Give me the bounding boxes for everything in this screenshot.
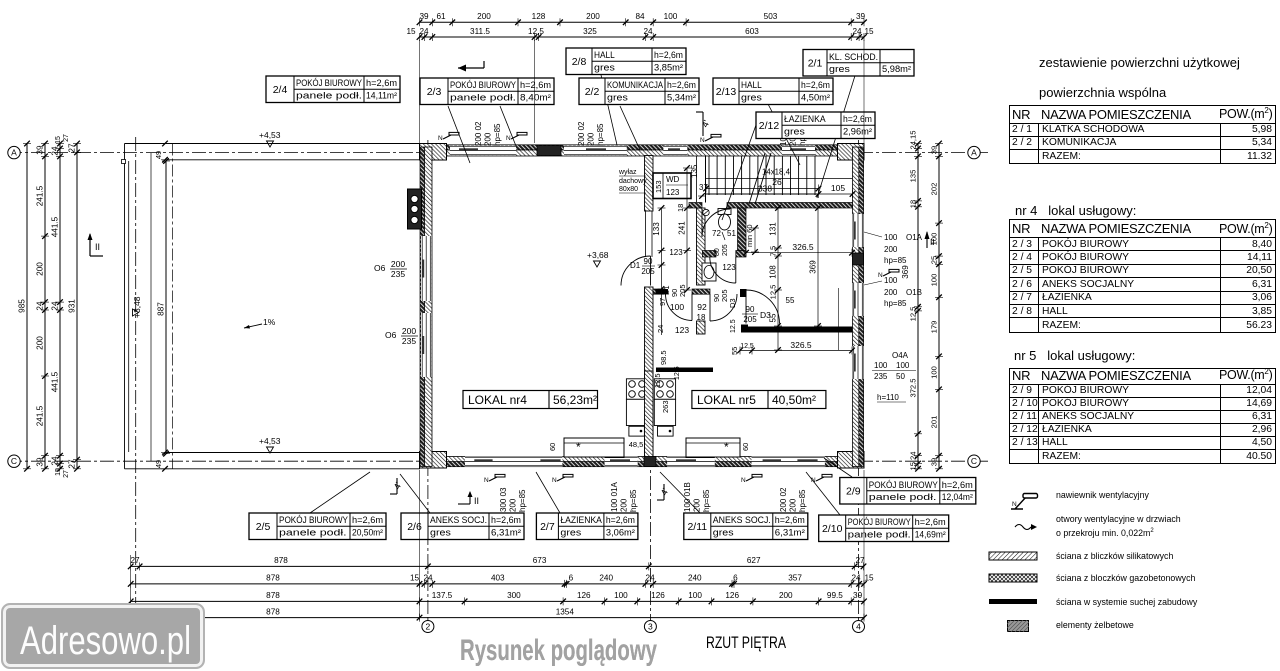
- svg-text:200: 200: [587, 132, 596, 146]
- window O1B right wall: [853, 283, 864, 316]
- svg-text:24: 24: [51, 456, 60, 466]
- wall exterior right dark band: [859, 147, 864, 467]
- svg-text:O4A: O4A: [892, 351, 909, 360]
- svg-text:2/3: 2/3: [427, 86, 442, 98]
- svg-text:153: 153: [654, 180, 663, 193]
- svg-text:24,15: 24,15: [909, 130, 918, 149]
- svg-text:12,5: 12,5: [740, 343, 754, 350]
- svg-text:5,98m²: 5,98m²: [882, 64, 911, 74]
- N flag bottom 1: [489, 477, 497, 481]
- svg-text:gres: gres: [741, 93, 762, 103]
- svg-text:14x18,4: 14x18,4: [762, 167, 790, 177]
- room label 2/9 pokoj biurowy: [840, 478, 976, 505]
- wall corner block top-left: [420, 144, 447, 161]
- svg-text:6: 6: [733, 574, 738, 583]
- legend wall gazobeton text: [1056, 573, 1195, 583]
- svg-text:126: 126: [577, 591, 591, 600]
- svg-text:205: 205: [743, 315, 757, 324]
- svg-text:39: 39: [856, 12, 866, 21]
- svg-text:100 01A: 100 01A: [610, 482, 619, 512]
- svg-text:h=2,6m: h=2,6m: [942, 480, 973, 490]
- leader 2/12: [722, 125, 756, 220]
- svg-text:hp=85: hp=85: [798, 489, 807, 512]
- svg-text:20,50m²: 20,50m²: [352, 528, 383, 538]
- svg-text:100: 100: [884, 276, 898, 285]
- dimension chain top row1: [420, 21, 865, 23]
- N flag bottom 3: [746, 477, 754, 481]
- section mark 4 bottom-left: [396, 478, 398, 494]
- grid axis 2 vertical dash-dot: [427, 140, 429, 620]
- svg-text:II: II: [95, 242, 100, 252]
- kitchen unit right (hobs): [654, 379, 675, 400]
- svg-text:hp=85: hp=85: [596, 123, 605, 146]
- svg-text:18: 18: [676, 204, 685, 212]
- svg-text:235: 235: [874, 372, 888, 381]
- reinforced concrete block top wall: [537, 146, 561, 156]
- svg-text:3,85m²: 3,85m²: [654, 63, 683, 73]
- svg-text:84: 84: [635, 12, 645, 21]
- svg-text:ANEKS SOCJ.: ANEKS SOCJ.: [430, 515, 487, 525]
- leader 2/8: [601, 75, 617, 145]
- svg-text:100: 100: [896, 361, 910, 370]
- svg-text:235: 235: [391, 269, 405, 279]
- svg-text:200: 200: [36, 262, 45, 276]
- svg-text:240: 240: [599, 574, 613, 583]
- N flag top 3: [705, 137, 713, 141]
- window O6 upper left wall: [421, 236, 432, 301]
- reinforced concrete block right wall: [853, 253, 864, 265]
- grid axis 3 circle: [644, 621, 656, 633]
- door staircase-hall arc: [702, 209, 730, 237]
- wall exterior left dark band: [420, 147, 425, 467]
- svg-text:201: 201: [930, 416, 939, 429]
- wall exterior bottom dark band: [420, 462, 865, 467]
- svg-text:60: 60: [741, 443, 750, 451]
- svg-text:hp=85: hp=85: [518, 489, 527, 512]
- N flag right wall: [883, 272, 891, 276]
- legend nawiewnik symbol: [1008, 488, 1068, 516]
- table nr5 lokal uslugowy: [1009, 368, 1276, 464]
- room label 2/10 pokoj biurowy: [819, 515, 949, 542]
- svg-text:O1B: O1B: [906, 288, 922, 297]
- section mark II right: [926, 232, 928, 248]
- door D3 small arc: [710, 294, 737, 321]
- wall exterior top (hatched): [420, 150, 865, 156]
- svg-text:985: 985: [18, 299, 27, 313]
- section mark 4 top: [702, 112, 704, 136]
- wall corner block top-right: [838, 144, 865, 161]
- svg-text:27: 27: [63, 134, 70, 142]
- svg-text:12,5: 12,5: [528, 27, 544, 36]
- column block right of corridor: [740, 289, 747, 297]
- window top band 3: [663, 146, 687, 156]
- room label 2/7 lazienka: [536, 513, 638, 540]
- svg-text:100: 100: [688, 591, 702, 600]
- wall drywall black kitchen: [656, 368, 713, 373]
- dimension chain bottom row2: [131, 583, 864, 585]
- room label 2/3 pokoj biurowy: [420, 78, 554, 105]
- svg-text:Adresowo.pl: Adresowo.pl: [20, 619, 191, 663]
- svg-text:15,24: 15,24: [909, 451, 918, 470]
- svg-text:POKÓJ BIUROWY: POKÓJ BIUROWY: [848, 517, 911, 527]
- svg-text:108: 108: [769, 265, 778, 279]
- svg-text:HALL: HALL: [741, 80, 762, 90]
- svg-text:100: 100: [930, 274, 939, 287]
- svg-text:*: *: [576, 440, 581, 454]
- wall below staircase (dark blocks): [689, 203, 702, 209]
- svg-text:12.5: 12.5: [769, 285, 778, 300]
- room label 2/12 lazienka: [756, 112, 875, 139]
- svg-text:6,31m²: 6,31m²: [491, 528, 521, 538]
- svg-text:N: N: [700, 137, 705, 144]
- svg-text:O1A: O1A: [906, 233, 923, 242]
- heading zestawienie: [1039, 55, 1240, 70]
- svg-text:55: 55: [786, 296, 795, 305]
- svg-text:369: 369: [809, 260, 818, 274]
- dim corridor 241 vertical: [686, 168, 688, 290]
- wall corridor bottom segment mid: [692, 289, 710, 294]
- svg-text:24: 24: [51, 146, 60, 156]
- svg-text:241: 241: [678, 221, 687, 235]
- svg-text:2/13: 2/13: [716, 86, 737, 98]
- svg-text:24: 24: [36, 301, 45, 311]
- svg-text:h=110: h=110: [877, 393, 899, 402]
- svg-text:h=2,6m: h=2,6m: [667, 80, 696, 90]
- svg-text:gres: gres: [829, 64, 850, 74]
- svg-text:18: 18: [909, 200, 918, 208]
- svg-text:100: 100: [670, 302, 684, 312]
- svg-text:6,31m²: 6,31m²: [775, 528, 805, 538]
- svg-text:C: C: [971, 456, 977, 466]
- svg-text:24: 24: [51, 301, 60, 311]
- window O1A top-right band: [782, 146, 815, 156]
- wall exterior bottom (hatched): [420, 457, 865, 463]
- svg-text:2/12: 2/12: [759, 120, 780, 132]
- leader 2/11: [660, 472, 700, 513]
- wall exterior top dark band: [420, 145, 865, 150]
- grid axis 2 circle: [422, 621, 434, 633]
- svg-text:N: N: [811, 477, 816, 484]
- svg-text:12,5: 12,5: [909, 307, 918, 322]
- svg-text:357: 357: [788, 574, 802, 583]
- svg-text:h=2,6m: h=2,6m: [606, 515, 635, 525]
- svg-text:179: 179: [930, 321, 939, 334]
- chimney flue block left wall: [408, 189, 422, 229]
- svg-text:26: 26: [772, 177, 782, 187]
- svg-text:N: N: [484, 477, 489, 484]
- room label 2/5 pokoj biurowy: [249, 513, 386, 540]
- svg-text:panele podł.: panele podł.: [450, 93, 516, 103]
- svg-text:*: *: [724, 440, 729, 454]
- svg-text:200: 200: [884, 245, 898, 254]
- radiator right with star: [686, 438, 740, 457]
- svg-text:128: 128: [532, 12, 546, 21]
- svg-text:15: 15: [864, 574, 874, 583]
- room label 2/8 hall: [566, 48, 686, 75]
- svg-text:O6: O6: [385, 330, 397, 340]
- svg-text:gres: gres: [594, 63, 615, 73]
- terrace inner vertical line: [150, 153, 152, 462]
- svg-text:5,34m²: 5,34m²: [667, 93, 696, 103]
- window O2 top-left band: [450, 146, 516, 156]
- svg-text:N: N: [878, 272, 883, 279]
- svg-text:92: 92: [697, 302, 707, 312]
- svg-text:100: 100: [930, 233, 939, 246]
- door D1 corridor-left arc: [621, 256, 651, 286]
- svg-text:14,69m²: 14,69m²: [915, 530, 946, 540]
- svg-text:27: 27: [68, 143, 77, 153]
- svg-text:200 02: 200 02: [474, 121, 483, 146]
- svg-text:372.5: 372.5: [909, 378, 918, 397]
- svg-text:325: 325: [583, 27, 597, 36]
- svg-text:dachowy: dachowy: [619, 178, 647, 185]
- svg-text:200: 200: [509, 498, 518, 512]
- section mark II left: [89, 234, 91, 256]
- svg-text:123: 123: [669, 248, 683, 257]
- svg-text:123: 123: [675, 325, 689, 335]
- svg-text:100: 100: [874, 361, 888, 370]
- svg-text:hp=85: hp=85: [702, 489, 711, 512]
- dimension chain right inner: [917, 144, 919, 469]
- table powierzchnia wspolna: [1009, 105, 1276, 164]
- terrace left edge double line: [124, 144, 126, 469]
- svg-text:40,50m²: 40,50m²: [772, 393, 816, 407]
- radiator left with star: [564, 438, 624, 457]
- window O6 lower left wall: [421, 313, 432, 377]
- leader 2/6: [400, 474, 430, 513]
- svg-text:123: 123: [722, 263, 736, 272]
- svg-text:39: 39: [36, 457, 45, 467]
- svg-text:603: 603: [745, 27, 759, 36]
- svg-text:27: 27: [130, 556, 140, 565]
- svg-text:2,96m²: 2,96m²: [843, 127, 872, 137]
- svg-text:15: 15: [55, 468, 62, 476]
- grid axis A circle right: [968, 146, 980, 158]
- toilet: [718, 209, 731, 215]
- wall interior corridor right: [697, 208, 706, 285]
- room label 2/11 aneks socjalny: [684, 513, 808, 540]
- svg-text:HALL: HALL: [594, 50, 615, 60]
- svg-text:126: 126: [651, 591, 665, 600]
- svg-text:99.5: 99.5: [827, 591, 843, 600]
- column block corridor corner: [656, 289, 669, 294]
- svg-text:878: 878: [266, 591, 280, 600]
- svg-text:39: 39: [419, 12, 429, 21]
- svg-text:KOMUNIKACJA: KOMUNIKACJA: [607, 80, 663, 90]
- svg-text:24: 24: [419, 27, 429, 36]
- wall exterior left (hatched): [425, 147, 433, 467]
- svg-text:90: 90: [746, 305, 755, 314]
- svg-text:gres: gres: [784, 127, 805, 137]
- svg-text:27: 27: [63, 470, 70, 478]
- wall drywall black (suchej zabudowy): [746, 327, 853, 333]
- leader 2/9: [824, 458, 852, 477]
- svg-text:wyłaz: wyłaz: [618, 169, 637, 176]
- svg-text:2/7: 2/7: [540, 521, 555, 533]
- room label 2/13 hall: [713, 78, 833, 105]
- ventilation duct WD box: [653, 173, 691, 199]
- svg-text:25: 25: [930, 256, 939, 264]
- window O1B bottom band: [667, 457, 715, 467]
- dimension chain left 441.5: [59, 144, 61, 469]
- svg-text:panele podł.: panele podł.: [296, 91, 362, 101]
- legend wall drywall text: [1056, 597, 1197, 607]
- leader 2/3: [500, 106, 516, 146]
- svg-text:673: 673: [533, 556, 547, 565]
- svg-text:241.5: 241.5: [36, 405, 45, 426]
- svg-text:300 03: 300 03: [499, 487, 508, 512]
- kitchen sink left: [629, 426, 645, 436]
- svg-text:12,5: 12,5: [653, 373, 662, 388]
- svg-text:A: A: [971, 148, 977, 158]
- svg-text:202: 202: [930, 183, 939, 196]
- dim corridor 133 vertical: [661, 208, 663, 335]
- svg-text:200: 200: [402, 326, 416, 336]
- svg-text:200: 200: [391, 259, 405, 269]
- svg-text:200: 200: [884, 288, 898, 297]
- svg-text:WD: WD: [666, 175, 680, 184]
- door D3 hall arc: [746, 290, 780, 324]
- svg-text:2/8: 2/8: [572, 56, 587, 68]
- svg-text:200: 200: [620, 498, 629, 512]
- window O3 bottom band: [465, 457, 562, 467]
- svg-text:100: 100: [614, 591, 628, 600]
- svg-text:2/2: 2/2: [585, 86, 600, 98]
- dimension chain left 931: [76, 144, 78, 469]
- wall exterior right (hatched): [853, 147, 860, 467]
- svg-text:12.5: 12.5: [730, 319, 737, 333]
- svg-text:h=2,6m: h=2,6m: [366, 78, 397, 88]
- room label 2/6 aneks socjalny: [401, 513, 524, 540]
- dim room5 131: [777, 208, 779, 350]
- svg-text:100: 100: [930, 366, 939, 379]
- window O4A right wall: [853, 346, 864, 379]
- svg-text:1354: 1354: [556, 607, 575, 616]
- svg-text:15: 15: [406, 27, 416, 36]
- svg-text:N: N: [741, 477, 746, 484]
- staircase treads: [705, 156, 707, 203]
- dim room5 326.5 lower: [740, 350, 852, 352]
- svg-text:POKÓJ BIUROWY: POKÓJ BIUROWY: [869, 480, 938, 490]
- kitchen sink right: [658, 426, 674, 436]
- svg-text:878: 878: [266, 574, 280, 583]
- svg-text:51: 51: [727, 229, 736, 238]
- svg-text:887: 887: [157, 302, 166, 316]
- svg-text:133: 133: [652, 222, 661, 236]
- svg-text:205: 205: [641, 267, 655, 276]
- dimension chain bottom row4: [131, 617, 864, 619]
- section mark II bottom: [469, 492, 471, 504]
- window O1A bottom band: [605, 457, 638, 467]
- svg-text:POKÓJ BIUROWY: POKÓJ BIUROWY: [450, 80, 516, 90]
- svg-text:h=2,6m: h=2,6m: [775, 515, 805, 525]
- svg-text:4: 4: [856, 622, 861, 632]
- svg-text:200: 200: [484, 132, 493, 146]
- svg-text:24: 24: [656, 325, 665, 333]
- svg-text:137.5: 137.5: [432, 591, 453, 600]
- svg-text:98.5: 98.5: [659, 350, 668, 365]
- grid axis A dash-dot line: [8, 152, 990, 154]
- svg-text:KL. SCHOD.: KL. SCHOD.: [829, 52, 878, 62]
- svg-text:105: 105: [831, 183, 845, 193]
- dimension chain bottom row1: [131, 565, 864, 567]
- svg-text:205: 205: [722, 244, 729, 256]
- svg-text:+3,68: +3,68: [587, 250, 609, 260]
- legend wall drywall symbol: [989, 599, 1037, 604]
- svg-text:441.5: 441.5: [51, 216, 60, 237]
- svg-text:90: 90: [644, 257, 653, 266]
- svg-text:+3,48: +3,48: [132, 296, 142, 318]
- dimension extension lines top: [419, 40, 421, 143]
- svg-text:56,23m²: 56,23m²: [553, 393, 597, 407]
- svg-text:hp=85: hp=85: [884, 256, 907, 265]
- svg-text:97: 97: [658, 298, 667, 306]
- svg-text:263: 263: [661, 400, 670, 413]
- svg-text:panele podł.: panele podł.: [279, 528, 347, 538]
- dimension chain left 985: [26, 144, 28, 469]
- leader 2/2: [620, 106, 640, 150]
- svg-text:61: 61: [436, 12, 446, 21]
- svg-text:2/1: 2/1: [808, 57, 823, 69]
- svg-text:931: 931: [68, 299, 77, 313]
- svg-text:gres: gres: [713, 528, 734, 538]
- svg-text:15: 15: [864, 27, 874, 36]
- svg-text:24: 24: [852, 27, 862, 36]
- svg-text:100: 100: [884, 233, 898, 242]
- staircase dim 338: [706, 188, 819, 190]
- svg-text:126: 126: [725, 591, 739, 600]
- svg-text:235: 235: [402, 336, 416, 346]
- svg-text:55: 55: [730, 347, 739, 355]
- heading powierzchnia wspolna: [1039, 85, 1166, 100]
- heading nr 4 lokal uslugowy: [1015, 203, 1136, 218]
- svg-text:200 02: 200 02: [779, 487, 788, 512]
- leader 2/7: [536, 472, 560, 513]
- svg-text:2/9: 2/9: [846, 485, 861, 497]
- leader 2/10: [806, 472, 840, 515]
- svg-text:200: 200: [36, 336, 45, 350]
- svg-text:+4,53: +4,53: [259, 436, 281, 446]
- svg-text:ŁAZIENKA: ŁAZIENKA: [560, 515, 602, 525]
- svg-text:Rysunek poglądowy: Rysunek poglądowy: [460, 634, 657, 667]
- floor drain circle: [703, 209, 709, 215]
- svg-text:12,04m²: 12,04m²: [942, 492, 973, 502]
- terrace inner dash-dot line: [172, 144, 174, 469]
- svg-text:2/4: 2/4: [273, 84, 288, 96]
- svg-text:LOKAL nr5: LOKAL nr5: [697, 393, 756, 407]
- svg-text:200: 200: [586, 12, 600, 21]
- wall segment between kitchen: [645, 371, 654, 457]
- dim room5 369 vertical: [817, 208, 819, 326]
- svg-text:441.5: 441.5: [51, 371, 60, 392]
- washbasin: [702, 263, 716, 281]
- svg-text:878: 878: [274, 556, 288, 565]
- svg-text:39: 39: [853, 591, 863, 600]
- svg-text:15: 15: [55, 136, 62, 144]
- svg-text:48,5: 48,5: [629, 440, 644, 449]
- svg-text:200: 200: [477, 12, 491, 21]
- N flag bottom 4: [816, 477, 824, 481]
- svg-text:100: 100: [664, 12, 678, 21]
- svg-text:123: 123: [666, 188, 680, 197]
- watermark Rysunek pogladowy: [440, 618, 700, 671]
- svg-text:18: 18: [697, 313, 706, 322]
- leader 2/4: [448, 106, 470, 163]
- svg-text:h=2,6m: h=2,6m: [352, 515, 383, 525]
- dimension extension lines bottom: [419, 470, 421, 620]
- legend wall silikat symbol: [988, 551, 1038, 563]
- grid axis C circle left: [8, 455, 20, 467]
